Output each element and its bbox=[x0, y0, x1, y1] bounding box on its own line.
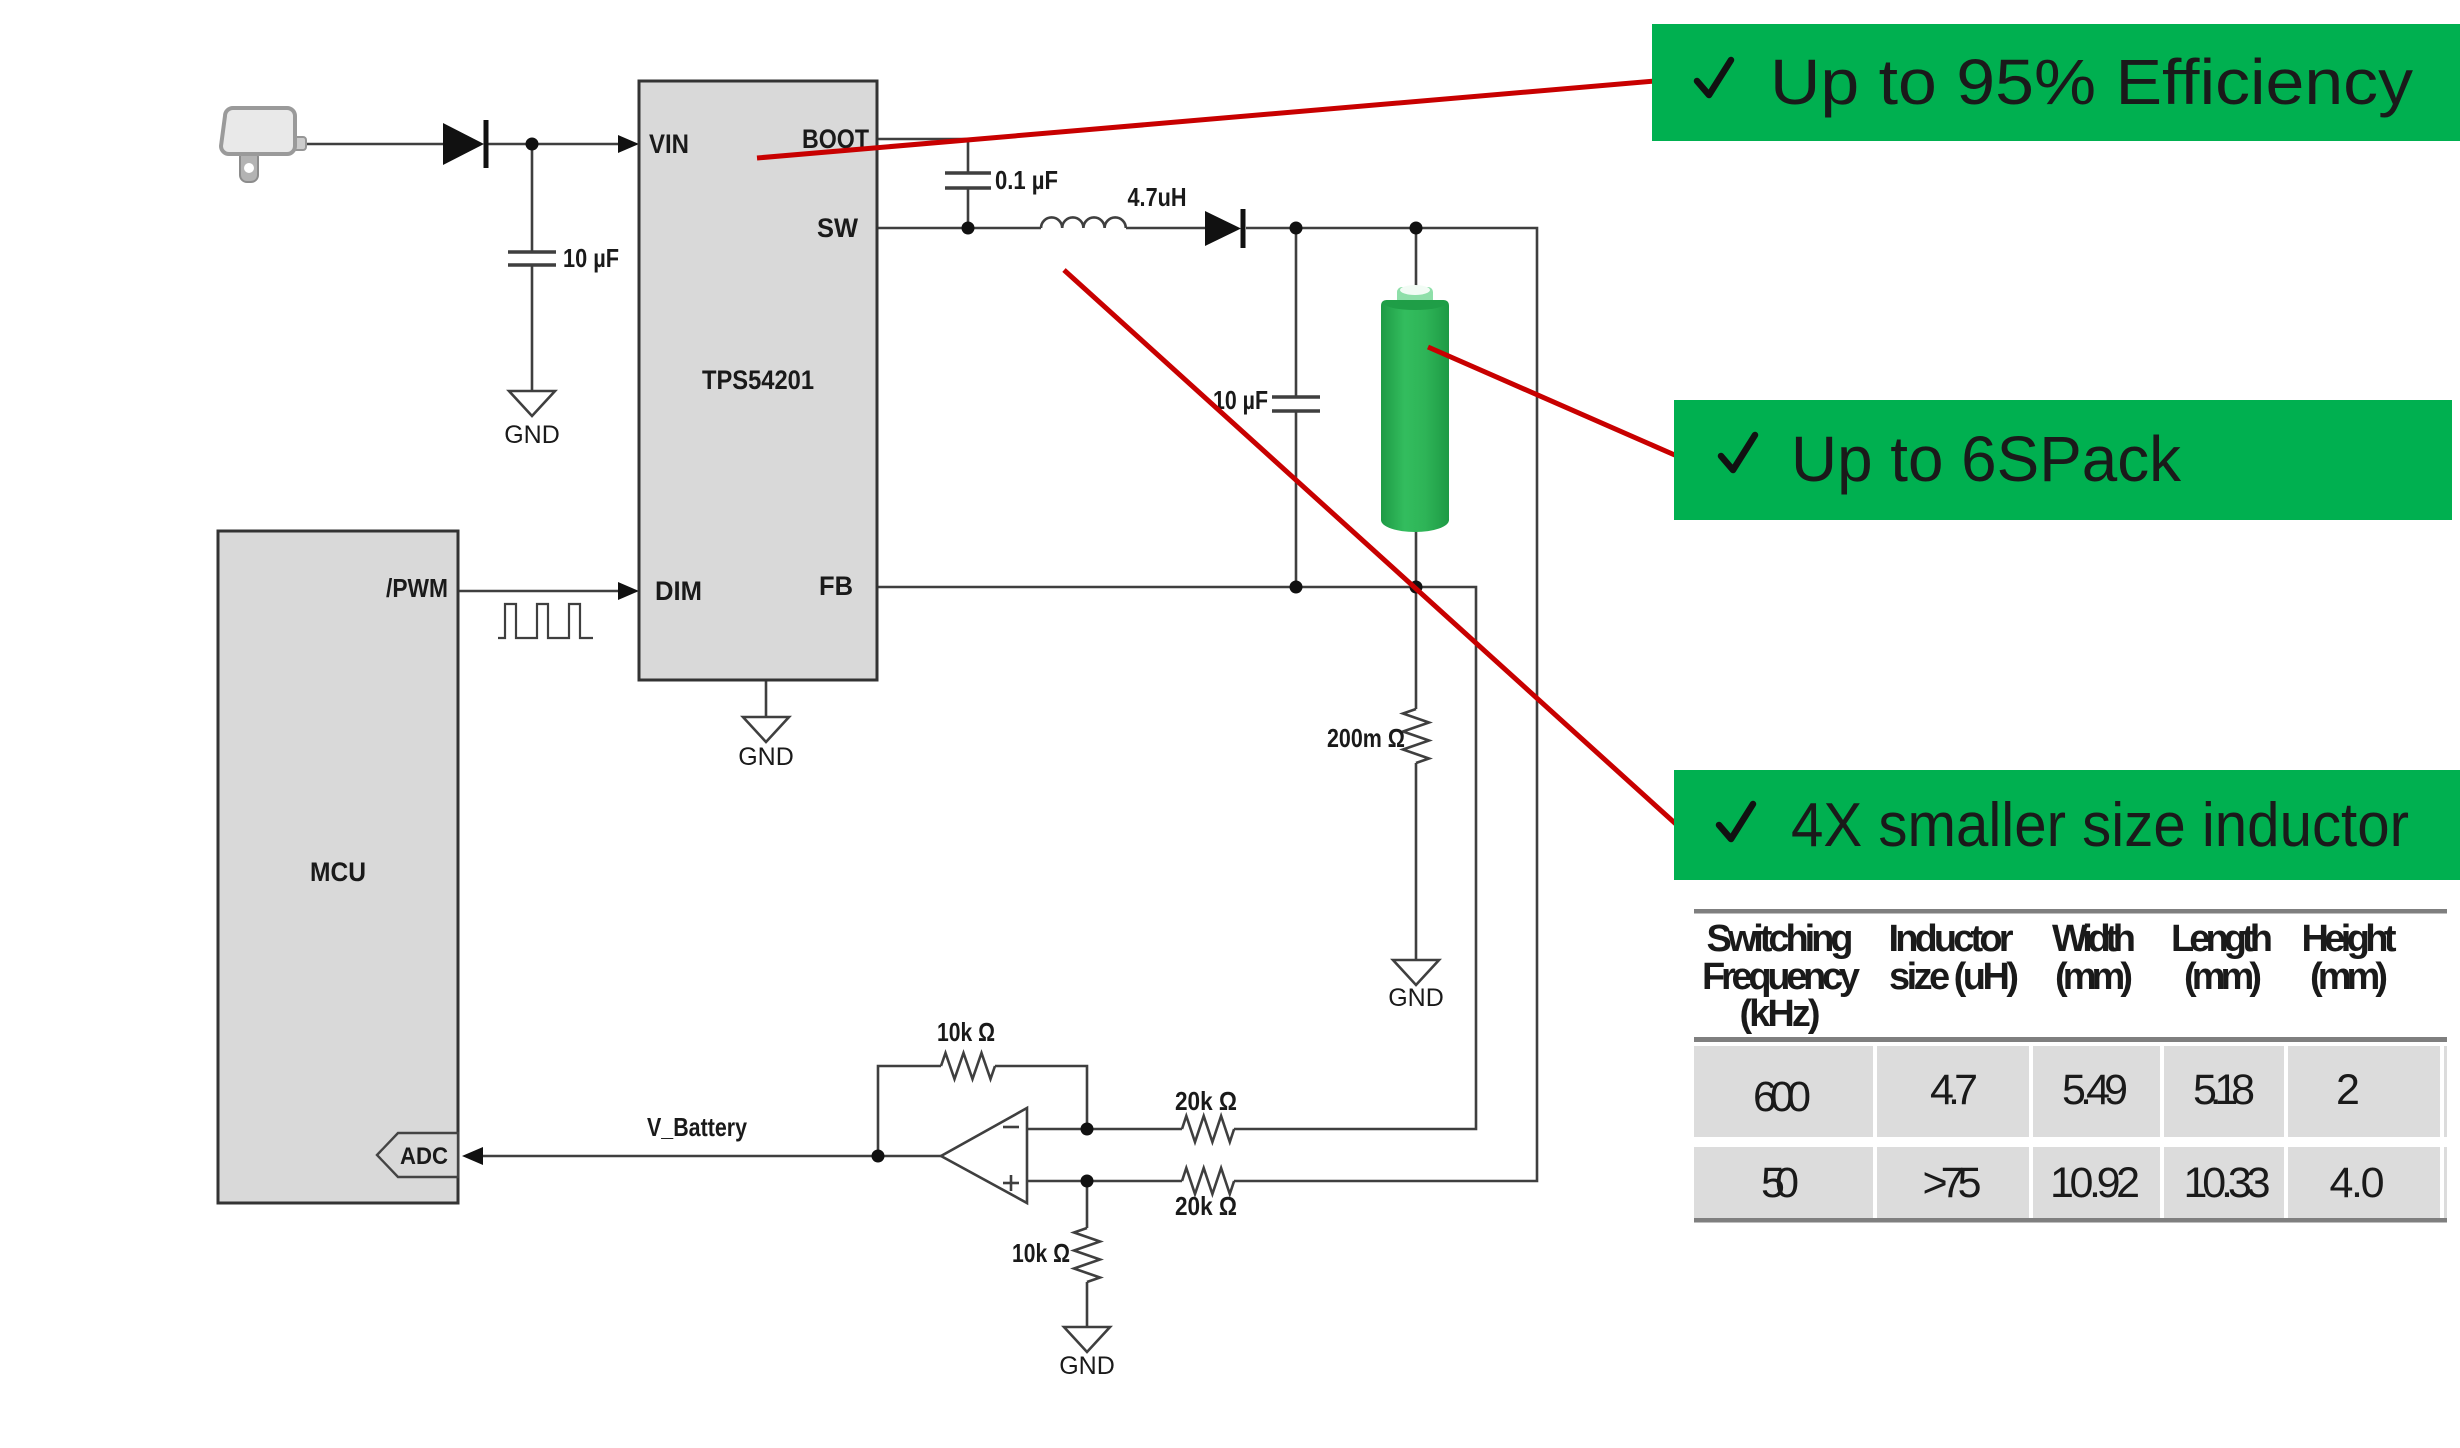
svg-text:(kHz): (kHz) bbox=[1740, 993, 1821, 1035]
svg-text:200m Ω: 200m Ω bbox=[1327, 723, 1405, 753]
svg-text:VIN: VIN bbox=[649, 129, 689, 159]
ground GND1 bbox=[504, 391, 560, 449]
wire /PWM to DIM bbox=[458, 590, 624, 593]
svg-text:20k Ω: 20k Ω bbox=[1175, 1191, 1237, 1221]
wire FB node to resistor R5 bbox=[1415, 587, 1418, 709]
wire R4 to ground GND4 bbox=[1086, 1282, 1089, 1327]
wire node D to battery BT1 bbox=[1415, 228, 1418, 292]
diode D2 bbox=[1205, 209, 1243, 248]
svg-text:Length: Length bbox=[2171, 918, 2273, 960]
pin arrow into VIN bbox=[618, 135, 639, 153]
op-amp U3 bbox=[941, 1108, 1027, 1203]
wire R5 to ground GND3 bbox=[1415, 763, 1418, 960]
wire feedback loop with resistor R2 bbox=[878, 1066, 941, 1156]
resistor R2 10k feedback zigzag bbox=[941, 1053, 995, 1079]
svg-text:50: 50 bbox=[1761, 1159, 1799, 1207]
svg-text:V_Battery: V_Battery bbox=[647, 1112, 747, 1142]
svg-text:Up to 95% Efficiency: Up to 95% Efficiency bbox=[1770, 46, 2413, 118]
svg-text:10.33: 10.33 bbox=[2184, 1159, 2271, 1207]
PWM waveform symbol bbox=[498, 604, 593, 638]
capacitor C2 0.1 µF plates bbox=[945, 173, 991, 188]
wire op-amp output to ADC bbox=[478, 1155, 941, 1158]
resistor R6 20k plus zigzag bbox=[1182, 1168, 1234, 1194]
svg-text:5.18: 5.18 bbox=[2193, 1066, 2255, 1114]
node I plus junction dot bbox=[1081, 1175, 1094, 1188]
pin arrow into ADC bbox=[462, 1147, 483, 1165]
svg-text:size (uH): size (uH) bbox=[1889, 956, 2019, 998]
svg-text:5.49: 5.49 bbox=[2062, 1066, 2128, 1114]
svg-text:DIM: DIM bbox=[655, 576, 702, 606]
node G op-amp output junction dot bbox=[872, 1150, 885, 1163]
ground GND3 under R5 bbox=[1388, 960, 1444, 1012]
svg-text:FB: FB bbox=[819, 571, 853, 601]
svg-text:10 µF: 10 µF bbox=[563, 243, 619, 273]
node C output cap junction dot bbox=[1290, 222, 1303, 235]
pin arrow into DIM bbox=[618, 582, 639, 600]
node E FB cap junction dot bbox=[1290, 581, 1303, 594]
capacitor C3 10 µF plates bbox=[1272, 397, 1320, 411]
svg-text:(mm): (mm) bbox=[2184, 956, 2262, 998]
resistor R3 20k minus zigzag bbox=[1182, 1116, 1234, 1142]
svg-text:SW: SW bbox=[817, 213, 858, 243]
svg-text:10.92: 10.92 bbox=[2050, 1159, 2140, 1207]
wire TPS ground stem bbox=[765, 680, 768, 717]
callout box 2 Up to 6SPack bbox=[1674, 400, 2452, 520]
wire C2 to SW node B bbox=[967, 188, 970, 228]
wire SW to inductor L1 bbox=[877, 227, 1041, 230]
svg-text:2: 2 bbox=[2336, 1066, 2360, 1114]
wire D2 to output nodes and right rail bbox=[1234, 228, 1537, 1181]
node B boot junction dot bbox=[962, 222, 975, 235]
svg-text:ADC: ADC bbox=[400, 1143, 448, 1170]
svg-text:Up to 6SPack: Up to 6SPack bbox=[1791, 423, 2182, 495]
svg-text:4X smaller size inductor: 4X smaller size inductor bbox=[1791, 791, 2409, 860]
ground GND2 under TPS bbox=[738, 717, 794, 771]
svg-text:GND: GND bbox=[738, 743, 794, 771]
svg-text:4.7: 4.7 bbox=[1930, 1066, 1978, 1114]
svg-text:4.7uH: 4.7uH bbox=[1128, 182, 1187, 212]
svg-text:Switching: Switching bbox=[1707, 918, 1854, 960]
wire D1 to VIN bbox=[487, 143, 624, 146]
wire plus node to resistor R4 bbox=[1086, 1181, 1089, 1228]
inductor L1 4.7uH coil bbox=[1041, 217, 1126, 228]
svg-text:20k Ω: 20k Ω bbox=[1175, 1086, 1237, 1116]
svg-text:Inductor: Inductor bbox=[1889, 918, 2014, 960]
wire node A to capacitor C1 bbox=[531, 144, 534, 252]
svg-text:>75: >75 bbox=[1923, 1159, 1982, 1207]
wire battery BT1 to FB node bbox=[1415, 528, 1418, 587]
node A junction dot bbox=[526, 138, 539, 151]
wire node C to capacitor C3 bbox=[1295, 228, 1298, 397]
wire plus input segment bbox=[1027, 1180, 1182, 1183]
red leader line to inductor callout bbox=[1064, 270, 1677, 825]
svg-text:Height: Height bbox=[2302, 918, 2397, 960]
svg-text:/PWM: /PWM bbox=[386, 573, 448, 603]
capacitor C1 10 µF plates bbox=[508, 252, 556, 265]
inductor comparison table bbox=[1694, 909, 2447, 1223]
wire BOOT to capacitor C2 bbox=[877, 139, 968, 173]
AC adapter plug icon bbox=[221, 108, 306, 182]
node D battery junction dot bbox=[1410, 222, 1423, 235]
svg-text:GND: GND bbox=[504, 421, 560, 449]
svg-text:TPS54201: TPS54201 bbox=[702, 365, 814, 395]
svg-text:Frequency: Frequency bbox=[1702, 956, 1860, 998]
node H minus junction dot bbox=[1081, 1123, 1094, 1136]
battery BT1 bbox=[1381, 285, 1449, 532]
svg-text:GND: GND bbox=[1388, 984, 1444, 1012]
red leader line to Efficiency callout bbox=[757, 81, 1655, 158]
svg-text:Width: Width bbox=[2052, 918, 2136, 960]
svg-text:GND: GND bbox=[1059, 1352, 1115, 1380]
ADC port flag on MCU bbox=[377, 1133, 458, 1177]
node F FB battery junction dot bbox=[1410, 581, 1423, 594]
diode D1 bbox=[443, 120, 486, 168]
svg-text:600: 600 bbox=[1753, 1073, 1811, 1121]
svg-text:10k Ω: 10k Ω bbox=[937, 1017, 995, 1047]
svg-text:(mm): (mm) bbox=[2055, 956, 2133, 998]
MCU block U2 bbox=[218, 531, 458, 1203]
svg-text:MCU: MCU bbox=[310, 857, 366, 887]
resistor R4 10k vertical zigzag bbox=[1074, 1228, 1100, 1282]
IC U1 TPS54201 bbox=[639, 81, 877, 680]
svg-text:(mm): (mm) bbox=[2310, 956, 2388, 998]
red leader line to 6SPack callout bbox=[1428, 347, 1677, 456]
wire C3 to FB line bbox=[1295, 411, 1298, 587]
resistor R5 200m vertical zigzag bbox=[1403, 709, 1429, 763]
callout box 3 4X smaller size inductor bbox=[1674, 770, 2460, 880]
wire minus input segment bbox=[1027, 1128, 1182, 1131]
wire C1 to ground GND1 bbox=[531, 265, 534, 391]
ground GND4 under R4 bbox=[1059, 1327, 1115, 1380]
callout box 1 Up to 95% Efficiency bbox=[1652, 24, 2460, 141]
wire L1 to diode D2 bbox=[1126, 227, 1205, 230]
wire adapter to diode D1 bbox=[300, 143, 443, 146]
svg-text:4.0: 4.0 bbox=[2330, 1159, 2385, 1207]
svg-text:0.1 µF: 0.1 µF bbox=[995, 165, 1058, 195]
wire FB line bbox=[877, 587, 1476, 1129]
svg-text:10k Ω: 10k Ω bbox=[1012, 1238, 1070, 1268]
